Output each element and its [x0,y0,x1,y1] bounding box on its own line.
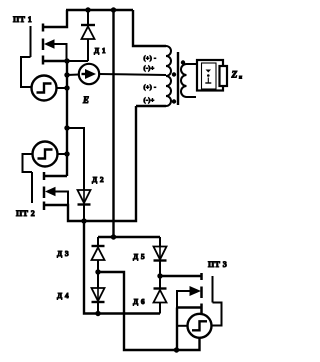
node secondary top dot [181,60,185,64]
wire top rail [66,9,133,11]
node D2 bus dot [64,125,69,130]
node G2 bus dot [64,151,69,156]
svg-text:(+) -: (+) - [144,55,157,62]
wire PT2 drain stub [44,175,67,177]
generator G1 pulse source [32,76,57,101]
transformer secondary winding [181,64,187,97]
svg-text:Д 4: Д 4 [57,291,69,300]
transistor PT3 gate bar [212,276,214,303]
wire PT1 drain to top rail [43,10,67,27]
wire PT3 gate lead [212,303,222,326]
wire bridge top rail [98,236,160,238]
diode D3 [92,237,105,272]
transformer primary winding [166,46,171,106]
wire PT1 gate lead [21,57,32,87]
svg-text:ПТ 1: ПТ 1 [13,15,32,24]
wire G1 to bus [57,87,68,89]
load Zn right electrode [220,66,228,86]
generator G2 pulse source [33,142,58,167]
transistor PT2 gate bar [31,172,33,203]
wire D2 to bridge bottom (vertical) [84,221,160,314]
svg-text:(+) -: (+) - [144,84,157,91]
wire top rail to bridge (vertical) [112,10,114,237]
source E circle [79,64,99,84]
svg-text:н: н [239,75,242,81]
diode D4 [92,272,105,314]
svg-text:Z: Z [231,71,238,81]
generator G3 pulse source [188,314,212,338]
diode D2 [78,190,91,221]
load Zn transducer glyph [205,70,211,84]
node D5-D6 midpoint dot [157,273,162,278]
wire bus to source E [67,74,79,77]
svg-text:(-)+: (-)+ [144,97,155,104]
transformer core [177,52,179,105]
wire source E to transformer center tap [99,74,166,75]
node PT3 source bottom dot [174,347,179,352]
wire bridge mid to bottom rail [98,272,200,350]
node top-D1 junction dot [85,7,90,12]
svg-text:Д 5: Д 5 [133,252,145,261]
wire bus to D2 top [67,128,84,190]
wire bridge mid to PT3 drain [160,275,201,277]
wire secondary to load bottom [187,96,197,98]
node top-bridge junction dot [111,7,116,12]
wire PT3 source down [176,308,178,351]
wire top rail to transformer top [133,10,166,46]
wire transformer bottom lead [136,105,166,107]
load Zn inner box [202,63,217,89]
wire PT1 source stub [43,60,67,62]
svg-text:ПТ 3: ПТ 3 [208,260,227,269]
wire G2 to bus [58,153,68,155]
wire G3 left terminal [177,325,188,327]
transistor PT2 channel bar [43,172,46,210]
transistor PT3 body arrow [177,286,201,308]
transistor PT1 body arrow [44,39,67,61]
svg-text:(-)+: (-)+ [144,65,155,72]
wire G2 to PT2 gate [23,154,33,172]
wire left bus [66,61,68,176]
node D4 bottom dot [95,311,100,316]
node E-source bus dot [64,72,69,77]
wire PT3 source stub [177,306,201,308]
node D3-D4 midpoint dot [95,269,100,274]
svg-text:Д 2: Д 2 [92,175,104,184]
wire PT2 source to transformer bottom [44,106,136,221]
diode D6 [154,276,167,314]
transistor PT1 gate bar [30,26,32,57]
transistor PT3 channel bar [200,273,203,314]
transistor PT2 body arrow [45,187,68,205]
wire D1 anode to bus [67,60,88,62]
diode D1 [81,10,95,61]
svg-text:Д 1: Д 1 [94,46,106,55]
node primary bottom dot [172,99,176,103]
node primary center tap dot [172,72,176,76]
svg-text:Д 6: Д 6 [133,297,145,306]
node PT1 source junction dot [64,58,69,63]
diode D5 [154,237,167,276]
wire secondary to load top [187,63,197,65]
node D2 bottom dot [81,218,86,223]
node bridge top dot [111,234,116,239]
svg-text:Д 3: Д 3 [57,249,69,258]
node G1 bus dot [64,85,69,90]
transistor PT1 channel bar [42,24,45,65]
svg-text:ПТ 2: ПТ 2 [16,209,35,218]
load Zn outer box [197,60,223,91]
svg-text:E: E [82,95,89,105]
